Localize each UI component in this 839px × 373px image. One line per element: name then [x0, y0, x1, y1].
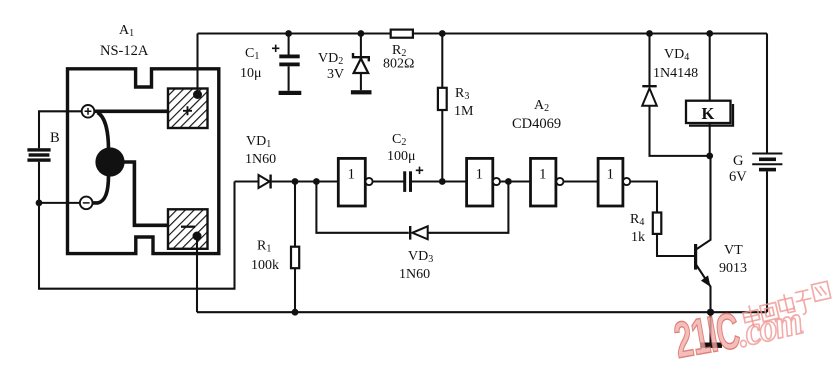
svg-text:1k: 1k	[631, 230, 645, 245]
svg-text:9013: 9013	[719, 261, 747, 276]
svg-text:100k: 100k	[251, 258, 279, 273]
node under K	[706, 153, 713, 160]
bottom rail	[197, 311, 767, 313]
sensor module A1 NS-12A outline	[68, 69, 219, 254]
resistor R2 (inline on rail)	[391, 30, 413, 38]
mic element (black disc)	[95, 147, 124, 176]
wire gate4 out to R4	[630, 182, 657, 213]
wire gate2 out to gate3	[500, 180, 531, 182]
battery G	[752, 34, 782, 313]
svg-text:1N60: 1N60	[245, 152, 276, 167]
svg-text:6V: 6V	[729, 169, 747, 185]
node feedback right	[505, 178, 512, 185]
svg-text:1: 1	[607, 167, 615, 183]
terminal minus	[80, 197, 93, 210]
svg-text:G: G	[733, 153, 744, 169]
resistor R4	[653, 213, 694, 257]
relay K	[686, 34, 733, 156]
svg-text:1N60: 1N60	[399, 267, 430, 282]
svg-text:1M: 1M	[454, 104, 474, 119]
node R1 bottom	[292, 309, 299, 316]
node R1 top	[292, 178, 299, 185]
diode VD4	[642, 34, 710, 156]
svg-text:VD3: VD3	[408, 249, 433, 265]
node VD4 on rail	[646, 30, 653, 37]
svg-text:1: 1	[476, 167, 484, 183]
node VD2 on rail	[358, 30, 365, 37]
svg-text:CD4069: CD4069	[512, 116, 561, 132]
svg-text:NS-12A: NS-12A	[100, 43, 149, 59]
wire to ground	[709, 312, 711, 342]
node R3 on rail	[439, 30, 446, 37]
wire minus pad down to bottom rail	[196, 236, 198, 312]
svg-text:C2: C2	[392, 132, 406, 148]
svg-text:R4: R4	[630, 212, 644, 228]
diode VD1	[259, 175, 271, 189]
internal wire plus-terminal to pad	[94, 110, 168, 114]
internal wire curve to disc	[98, 113, 109, 151]
inverter gate U1c	[531, 158, 564, 206]
wire battery B to minus node	[38, 162, 40, 203]
ground under VD2	[351, 90, 372, 94]
svg-text:1: 1	[539, 167, 547, 183]
ground bar	[701, 343, 723, 348]
svg-text:A1: A1	[119, 23, 134, 39]
watermark chinese glyphs	[740, 281, 833, 328]
wire plus pad up to top rail	[196, 34, 198, 95]
node C1 on rail	[285, 30, 292, 37]
svg-text:R1: R1	[257, 239, 271, 255]
svg-text:B: B	[50, 130, 60, 146]
top supply rail	[198, 32, 768, 34]
internal wire disc to minus pad	[122, 162, 168, 225]
node feedback left	[313, 178, 320, 185]
svg-text:100μ: 100μ	[387, 149, 416, 164]
svg-text:802Ω: 802Ω	[383, 57, 414, 72]
wire plus terminal to battery B	[39, 111, 82, 148]
terminal plus	[82, 105, 95, 118]
feedback wire with VD3	[316, 182, 508, 233]
capacitor C2	[403, 167, 423, 192]
wire corner to VD1	[235, 180, 259, 182]
node R3 on signal line	[439, 178, 446, 185]
internal wire minus-terminal curve to disc	[93, 175, 109, 203]
svg-text:3V: 3V	[327, 67, 344, 82]
wire C2 to gate 2	[412, 180, 467, 182]
battery B plates	[27, 148, 50, 162]
diode VD3	[410, 226, 428, 240]
wire gate3 out to gate4	[564, 180, 599, 182]
node K on rail	[706, 30, 713, 37]
node emitter on bottom rail	[707, 309, 714, 316]
inverter gate U1a	[338, 158, 372, 206]
svg-text:VT: VT	[724, 243, 743, 258]
wire gate1 out to C2	[373, 180, 404, 182]
svg-text:C1: C1	[245, 46, 259, 62]
svg-text:K: K	[702, 104, 715, 123]
node at B minus junction	[36, 200, 43, 207]
zener VD2	[353, 34, 369, 91]
svg-text:1N4148: 1N4148	[653, 66, 698, 81]
svg-text:A2: A2	[534, 98, 549, 114]
resistor R1	[291, 182, 299, 313]
electret pad + (hatched)	[168, 89, 208, 129]
inverter gate U1d	[598, 158, 630, 206]
capacitor C1	[272, 34, 300, 91]
svg-text:1: 1	[348, 167, 356, 183]
svg-text:R3: R3	[455, 86, 469, 102]
resistor R3	[438, 34, 447, 182]
inverter gate U1b	[467, 158, 500, 206]
transistor VT 9013	[694, 156, 711, 312]
svg-text:VD4: VD4	[664, 47, 689, 63]
wire VD1 to gate 1	[272, 180, 339, 182]
wire node down and right to VD1 branch	[39, 182, 235, 289]
svg-text:10μ: 10μ	[240, 66, 262, 81]
ground under C1	[279, 91, 302, 95]
wire node to minus terminal	[39, 202, 80, 204]
electret pad - (hatched)	[168, 209, 208, 249]
svg-text:VD1: VD1	[246, 134, 271, 150]
svg-text:VD2: VD2	[318, 51, 343, 67]
